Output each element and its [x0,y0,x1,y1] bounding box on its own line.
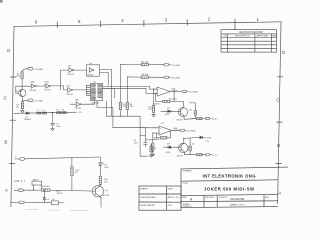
svg-text:D5: D5 [167,108,170,110]
transistor Q5 [179,143,188,152]
wire R19 to ground [152,151,154,154]
junction node rail [52,112,53,113]
svg-text:SIZE: SIZE [182,197,187,199]
svg-text:+5V: +5V [205,141,209,143]
wire R4 bottom to H1 [126,110,128,117]
title block company/title divider [181,180,278,181]
opto-coupler U4 box [87,65,100,76]
diode D1 [26,112,29,115]
wire U2A to U2B [36,85,46,87]
zone tick left C/B [10,119,16,121]
svg-text:6: 6 [35,19,38,24]
svg-text:U2B: U2B [45,82,50,84]
ground R15 [152,115,155,117]
svg-text:LTR: LTR [223,36,227,38]
resistor R6 [141,76,148,79]
svg-text:BC547: BC547 [177,155,184,157]
LED D7 [99,157,101,163]
svg-text:R5 220: R5 220 [142,61,149,63]
drawn table date column divider [166,186,168,210]
svg-text:A: A [190,198,193,202]
svg-text:FSCM NO: FSCM NO [205,197,215,199]
power rail +5V [14,112,77,113]
svg-text:Q5: Q5 [192,143,196,145]
wire H2 [113,127,146,129]
svg-text:SHEET 1 OF 1: SHEET 1 OF 1 [230,204,245,206]
svg-text:BC548: BC548 [103,195,110,197]
gate U2B [46,84,49,88]
svg-text:74LS14: 74LS14 [66,94,74,96]
resistor R7 [150,146,152,151]
svg-text:B: B [277,143,280,148]
fuse F1 [57,112,61,114]
connector J1-7 oval [28,99,33,102]
svg-text:+: + [160,128,162,130]
svg-text:J2-5 MID: J2-5 MID [171,77,180,79]
zone tick top 6/5 [56,22,58,28]
wire JP3 row [24,201,51,203]
svg-text:U2C: U2C [68,65,73,67]
zone tick top 4/3 [143,20,145,26]
svg-text:4: 4 [121,18,124,23]
zone tick left D/C [11,76,17,78]
svg-text:DATE: DATE [168,187,174,190]
wire U3B minus input chain [153,133,156,143]
revision table column DESCRIPTION divider [254,34,256,52]
connector J2-8 oval [205,117,210,119]
svg-text:4148: 4148 [165,114,170,116]
transistor Q4 [92,186,103,197]
svg-text:6N138: 6N138 [87,74,94,76]
wire D5 to Q3 base [170,110,180,112]
svg-text:1: 1 [257,17,260,22]
wire U5 pin to opamp minus input [103,88,158,93]
svg-text:+5V: +5V [78,112,82,114]
title block bottom [181,207,278,208]
zone tick top 3/2 [186,20,188,26]
wire R15 to ground [153,112,155,114]
connector JP2 oval [18,189,23,192]
svg-text:J2-2 MID: J2-2 MID [189,92,198,94]
fuse F2 [62,112,66,114]
resistor R21 row3 right [197,154,203,156]
revision table row line 2 [221,44,277,46]
zone tick right C/B [277,121,283,123]
feedback wire U3A [156,91,175,101]
svg-text:TITLE: TITLE [182,183,188,185]
svg-text:J1-8 MID: J1-8 MID [34,69,43,71]
border frame left [11,26,14,206]
svg-text:Q3: Q3 [189,110,193,112]
svg-text:L2: L2 [42,110,45,112]
svg-text:A: A [5,188,8,193]
svg-text:J2-7 C: J2-7 C [212,155,218,157]
svg-text:D3: D3 [47,199,50,201]
capacitor C5 [51,123,55,125]
svg-text:COMPANY: COMPANY [182,170,193,173]
svg-text:C: C [4,96,7,101]
connector JP1 oval [20,158,25,161]
wire Q5 collector up to D6 row [184,137,200,143]
resistor R17 vertical [194,111,196,116]
opamp U3B [159,126,172,135]
svg-text:C6: C6 [52,199,55,201]
svg-text:2: 2 [208,17,211,22]
title block left edge [180,169,182,208]
svg-text:JOK-500-SW: JOK-500-SW [230,198,245,201]
wire U2B output to U2D input [51,86,68,90]
svg-text:74LS14: 74LS14 [29,90,37,92]
wire U2D output to U5 [73,89,91,91]
wire R13 to Q4 base [50,190,96,191]
wire U3B output [172,129,180,131]
svg-text:C: C [276,98,279,103]
wire D8 to Q5 base [171,146,181,148]
svg-text:+5V: +5V [160,123,164,125]
wire R3 to MIDI row 1 [120,64,141,102]
ground C5 [51,129,54,131]
title block rev cell divider [263,195,265,207]
node vertical U2C input tap [60,70,62,90]
svg-text:DWG NO: DWG NO [219,197,228,199]
revision table header row line [221,33,277,35]
zone tick right B/A [276,163,282,165]
svg-text:A: A [278,191,281,196]
svg-text:J2-4 MID: J2-4 MID [171,65,180,67]
wire branch down to R12 [71,158,73,167]
svg-text:4-30: 4-30 [168,205,173,207]
svg-text:J1-7 MID: J1-7 MID [34,100,43,102]
zone tick left B/A [9,162,15,164]
ground R7 [149,155,152,157]
resistor R1 [21,72,23,79]
feedback resistor R16 [163,100,170,102]
revision table column header row line [221,37,277,39]
svg-text:J2-8 C: J2-8 C [212,119,218,121]
wire J1-8 to R1 top [22,69,28,72]
revision table outline [221,30,277,52]
svg-text:+UB 4.7: +UB 4.7 [14,180,26,183]
revision table column LTR divider [227,34,229,52]
svg-text:74LS14: 74LS14 [44,90,52,92]
wire U4 output lower [100,73,109,86]
resistor R12 [71,167,73,176]
ferrite bead L2 [42,112,46,114]
feedback resistor U3B [160,137,167,139]
svg-text:JMP1: JMP1 [33,179,39,181]
svg-text:5: 5 [78,19,81,24]
title block size cell divider [203,196,205,208]
svg-text:10K: 10K [16,76,20,78]
svg-text:REVISION RECORD: REVISION RECORD [240,31,264,34]
wire rail branch to C5 [52,113,54,123]
wire JP2 to R13 [23,189,41,191]
svg-text:DRAWN: DRAWN [140,187,148,190]
junction dots [33,89,185,191]
svg-text:1N4001: 1N4001 [24,119,32,121]
svg-text:LM358: LM358 [153,103,160,105]
svg-text:D: D [282,50,285,55]
connector J1-8 oval [28,67,33,70]
wire R5 to J2-4 [148,64,164,66]
pull-up resistor R4 [126,102,128,110]
svg-text:BC547: BC547 [176,119,183,121]
wire R6 to J2-5 [148,76,164,78]
wire R4 to MIDI row 2 [127,77,141,102]
connector J2-7 oval [205,154,210,156]
svg-text:B: B [4,140,7,145]
svg-text:JOKER 500 MIDI-SW: JOKER 500 MIDI-SW [204,186,254,191]
title block size row divider [181,200,278,203]
zone tick top 5/4 [100,21,102,27]
wire H2 down to C9 [145,128,147,143]
svg-text:APPROVED: APPROVED [257,35,269,38]
svg-text:Q4: Q4 [105,190,109,192]
svg-text:APR 12 - 86: APR 12 - 86 [168,196,180,199]
svg-text:ISSUED APPRD: ISSUED APPRD [140,204,155,207]
diode D3 vertical [43,190,46,202]
svg-text:3: 3 [165,17,168,22]
connector J2-5 oval [164,76,169,79]
svg-text:MEL 1: MEL 1 [56,191,63,193]
wire H1 [106,115,140,117]
svg-text:D: D [7,48,10,53]
ferrite bead L1 [37,112,41,114]
svg-text:LED: LED [105,167,109,169]
revision table column APPROVED divider [270,34,272,52]
title block outline [181,167,288,169]
resistor R19 [152,143,154,151]
wire R3 bottom to H1 [119,110,121,117]
transistor Q3 [178,108,187,117]
svg-text:LM358: LM358 [173,130,180,132]
wire U3B input from H-bracket [140,127,155,129]
svg-text:74LS244: 74LS244 [91,103,100,105]
U5 bottom pin 2 wire [97,101,113,128]
wire C5 to ground [52,125,54,128]
svg-text:470: 470 [104,182,108,184]
faint bottom margin smudge [25,210,88,211]
opamp U3A [157,87,170,96]
diode D6 [200,136,203,139]
gate U2E [76,102,80,107]
scan speck top-left corner [0,0,3,3]
title block title/size divider [181,194,278,195]
svg-text:U2E: U2E [75,100,80,102]
svg-text:CHECKED: CHECKED [140,197,150,199]
svg-text:U2A: U2A [30,81,35,84]
resistor R18 row1 right [197,118,203,120]
svg-text:PB1 2: PB1 2 [57,193,63,195]
wire Q1 emitter to R2 [22,100,24,102]
svg-text:F1: F1 [57,110,60,112]
svg-text:A.MEL: A.MEL [150,196,157,199]
drawn table row line 1 [139,193,181,195]
svg-text:D8: D8 [167,144,170,146]
wire border stub to Q1 base [16,86,19,93]
svg-text:100u: 100u [56,126,60,128]
IC U5 [91,83,103,100]
U5 left pin stubs [86,85,90,95]
U5 bottom stub to H1 [105,101,107,116]
gate U2D [68,88,72,93]
svg-text:220: 220 [130,106,134,108]
svg-text:REV: REV [265,197,270,199]
resistor R15 [153,105,155,112]
border frame top [14,22,281,27]
wire R14 to Q4 collector [99,184,101,185]
svg-text:10K: 10K [148,109,152,111]
svg-text:9: 9 [15,157,17,159]
wire R12 down to row II [71,176,73,191]
svg-text:INT ELEKTRONIK ONG: INT ELEKTRONIK ONG [203,174,256,179]
svg-text:NONE 1:1: NONE 1:1 [183,206,193,208]
gate U2C [69,68,73,73]
svg-text:74LS14: 74LS14 [67,74,75,76]
connector J2-4 oval [164,63,169,66]
resistor R5 [141,63,148,66]
resistor hatching [21,74,201,192]
bracket vertical wire [140,116,148,156]
svg-text:4148: 4148 [166,152,171,154]
pull-up resistor R3 [119,102,121,110]
wire U2E output to U5 bottom pin [81,101,95,105]
svg-text:(+5V): (+5V) [206,137,211,139]
wire Q5 emitter down to row3 [184,152,196,155]
wire Q4 emitter down [100,197,102,207]
wire Q3 collector up [174,101,183,107]
wire vertical drop to H2 [103,88,115,98]
capacitor C6 box [51,201,58,205]
resistor R14 [99,176,101,184]
connector JP3 oval [19,201,24,204]
svg-text:R13 4K7: R13 4K7 [42,186,51,188]
svg-text:DESCRIPTION: DESCRIPTION [235,36,250,38]
svg-text:+: + [158,89,160,91]
wire to U2C input [61,69,69,71]
wire U3A output [170,90,182,92]
wire U5 pin to opamp plus input [103,86,158,89]
wire left border to G1 input [16,85,31,87]
wire JP1 long to LED chain [25,157,100,159]
wire Q3 emitter down [184,116,196,119]
connector J2-2 oval [182,90,187,93]
transistor Q1 [19,89,26,96]
svg-text:U2D: U2D [66,85,71,87]
jumper JMP1 box [32,181,42,185]
capacitor C9 [144,143,148,147]
wire U4 output upper [100,69,112,86]
wire R11 to U3B [146,139,160,141]
wire R18 to J2-8 [202,118,205,120]
resistor R2 [21,102,23,109]
drawn table outline [139,186,181,210]
svg-text:L1: L1 [37,110,40,112]
ground Q1 emitter [21,109,24,113]
title block fscm cell divider [216,195,218,207]
svg-text:1K: 1K [16,107,19,109]
wire R1 to Q1 collector [21,79,23,90]
resistor R20 [189,146,191,151]
gate U2A [31,84,34,88]
wire U2C to U4 [74,69,87,71]
svg-text:J2-3 MID: J2-3 MID [187,131,196,133]
border frame right [278,22,281,204]
svg-text:F2: F2 [62,110,65,112]
svg-text:DATE: DATE [272,35,278,38]
wire vertical drop to H1 [111,86,113,116]
svg-text:R6 220: R6 220 [142,74,149,76]
svg-text:R7: R7 [154,148,157,150]
revision table row line 1 [221,40,277,42]
zone tick top 2/1 [234,19,236,30]
resistor R13 [42,189,50,192]
svg-text:R16 47K: R16 47K [169,99,177,101]
svg-text:100n: 100n [134,142,138,144]
wire D7 to R14 [99,166,101,177]
wire Q1 emitter down [23,97,28,101]
diode D8 [164,146,169,149]
diode D5 [161,110,168,112]
drawn table row line 2 [139,201,181,203]
zone tick right D/C [277,76,283,78]
wire R15 to plus input [153,89,155,105]
svg-text:74LS14: 74LS14 [74,108,82,110]
wire R21 to J2-7 [202,154,205,156]
svg-text:-: - [160,132,161,135]
svg-text:LM358: LM358 [171,91,178,93]
wire U2E input [70,103,76,105]
ground R19 [151,154,154,156]
revision table row line 3 [221,47,277,49]
connector J2-3 oval [180,129,185,132]
svg-text:1K: 1K [75,172,78,174]
